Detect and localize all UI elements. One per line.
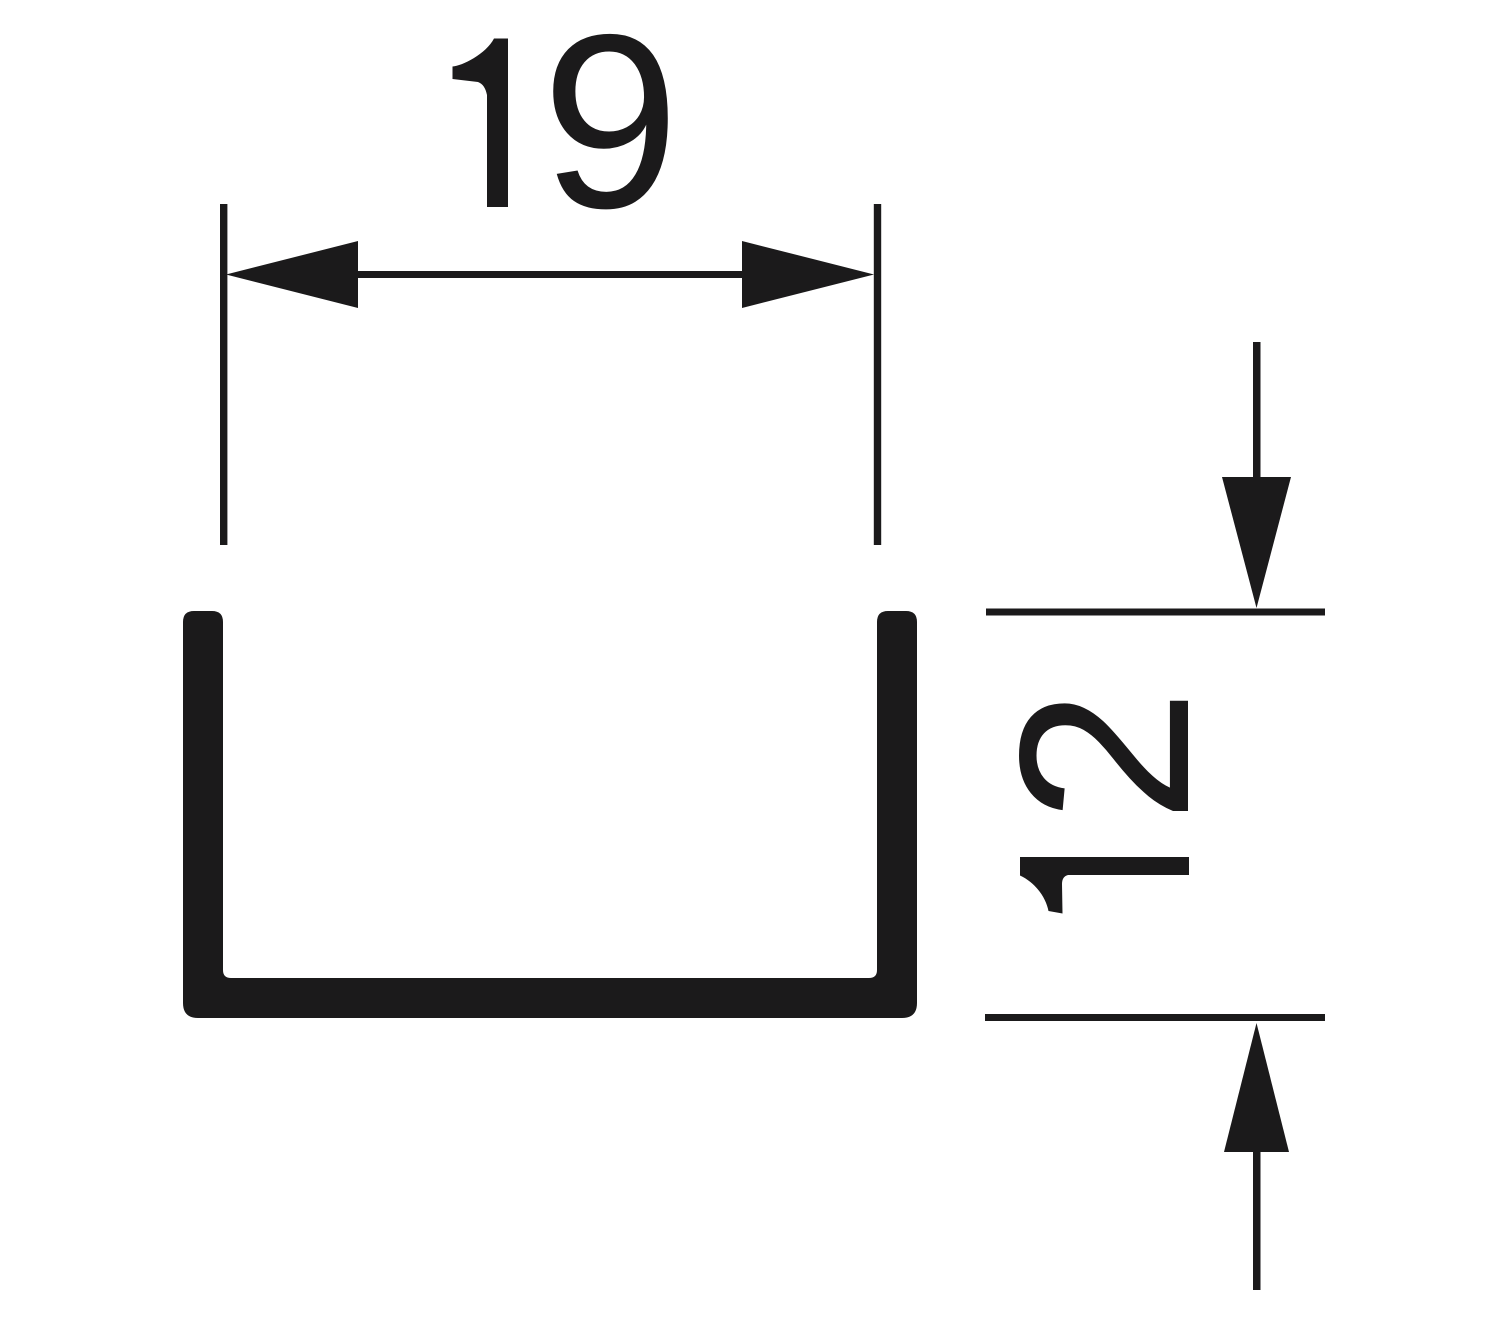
svg-text:2: 2	[970, 689, 1240, 824]
extension line right (width dimension)	[874, 204, 881, 545]
dimension label 19: digit 1	[453, 39, 509, 208]
U-channel profile cross-section	[183, 611, 917, 1018]
extension line top (height dimension, aligns with channel top)	[986, 609, 1325, 616]
arrow down: head	[1222, 477, 1291, 608]
arrow up (bottom of height dimension): stem	[1253, 1150, 1261, 1290]
dimension line (horizontal, width 19)	[240, 271, 860, 278]
extension line bottom (height dimension, aligns with channel bottom)	[985, 1014, 1325, 1021]
svg-text:9: 9	[542, 0, 680, 260]
dimension label 12: digit 1 (rotated 90 CCW)	[1020, 857, 1189, 914]
arrow down (top of height dimension): stem	[1253, 342, 1261, 479]
arrowhead right (points right)	[742, 241, 874, 308]
extension line left (width dimension)	[220, 204, 227, 545]
arrowhead left (points left)	[226, 241, 358, 308]
arrow up: head	[1224, 1023, 1289, 1152]
